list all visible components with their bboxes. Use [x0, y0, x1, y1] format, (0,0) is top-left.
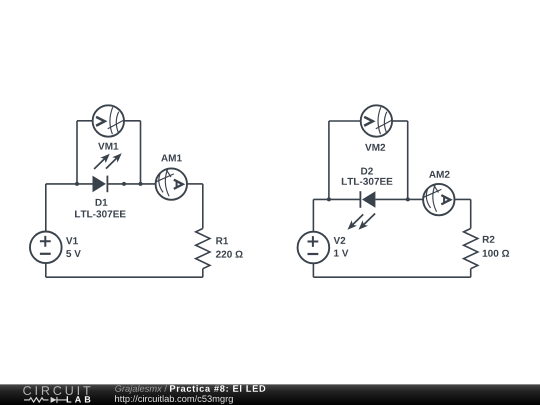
- label VM1: [98, 143, 118, 150]
- voltmeter VM2: [361, 105, 392, 136]
- label R1: [216, 237, 228, 244]
- author credit: Grajalesmx: [115, 385, 162, 394]
- label D2: [361, 168, 373, 175]
- wire: R1 bottom stub: [202, 269, 204, 278]
- wire: VM2 left branch horizontal: [329, 120, 361, 122]
- wire: AM1 right to corner above R1: [187, 183, 203, 185]
- wire: VM1 right branch vertical: [140, 121, 142, 184]
- label AM1: [161, 155, 182, 162]
- wire: bottom return row right circuit: [313, 276, 470, 278]
- wire: V1 plus terminal up to main row: [45, 184, 47, 232]
- wire: VM2 left branch vertical: [328, 121, 330, 199]
- wire: V2 plus terminal up to main row: [312, 199, 314, 231]
- LED D2 light arrow 1: [348, 214, 364, 229]
- label V1: [66, 237, 78, 244]
- voltmeter VM1: [93, 105, 124, 136]
- label R2: [483, 236, 495, 243]
- value label 100 ohm: [483, 250, 510, 257]
- footer bar background: [0, 384, 540, 405]
- resistor R2: [464, 229, 478, 269]
- LED D1 light arrow 1: [94, 154, 110, 169]
- node junction dot (VM1 right branch): [139, 182, 143, 186]
- wire: LED D1 cathode to ammeter AM1: [107, 183, 155, 185]
- node junction dot (VM1 left branch / D1 anode): [75, 182, 79, 186]
- value label 5 V: [66, 250, 81, 257]
- wire: corner down to R1 top: [202, 184, 204, 229]
- resistor R1: [196, 229, 210, 269]
- wire: AM2 right to corner above R2: [455, 198, 471, 200]
- node junction dot (VM2 left branch): [327, 197, 331, 201]
- wire: VM1 left branch horizontal: [77, 120, 93, 122]
- wire: R2 bottom stub: [470, 269, 472, 278]
- label V2: [334, 237, 346, 244]
- voltage source V2: [298, 232, 330, 264]
- wire: bottom return row left circuit: [46, 276, 203, 278]
- node junction dot (VM2 right branch): [406, 197, 410, 201]
- CircuitLab logo word CIRCUIT: [23, 386, 90, 395]
- wire: LED D2 anode to ammeter AM2: [376, 198, 424, 200]
- credit separator slash: [164, 385, 167, 392]
- wire: corner down to R2 top: [470, 199, 472, 228]
- LED D1 (triangle and cathode bar): [93, 176, 108, 193]
- LED D2 (triangle and cathode bar, rotated 180): [360, 191, 375, 208]
- logo word LAB: [67, 396, 91, 402]
- value label LTL-307EE (D1): [75, 210, 126, 217]
- wire: bottom row up to V2 minus terminal: [312, 263, 314, 277]
- voltage source V1: [30, 232, 62, 264]
- label VM2: [365, 144, 385, 151]
- wire: bottom row up to V1 minus terminal: [45, 263, 47, 277]
- LED D1 light arrow 2: [106, 153, 122, 168]
- label AM2: [429, 171, 450, 178]
- value label LTL-307EE (D2): [342, 178, 393, 185]
- wire: VM1 right branch horizontal: [124, 120, 141, 122]
- wire: main row V2 corner to LED D2 cathode: [313, 198, 360, 200]
- value label 1 V: [334, 250, 348, 257]
- url line: [115, 395, 233, 404]
- node dot (wire joint right of D1): [122, 182, 126, 186]
- wire: main row V1 corner to LED D1 anode: [46, 183, 93, 185]
- logo schematic squiggle: diode and wire: [51, 397, 67, 403]
- wire: VM2 right branch horizontal: [392, 120, 408, 122]
- wire: VM2 right branch vertical: [407, 121, 409, 199]
- label D1: [96, 199, 108, 206]
- value label 220 ohm: [216, 251, 243, 258]
- ammeter AM1: [156, 168, 187, 199]
- title: Practica #8: El LED: [170, 385, 265, 392]
- LED D2 light arrow 2: [359, 214, 376, 230]
- wire: VM1 left branch vertical: [76, 121, 78, 184]
- ammeter AM2: [423, 184, 454, 215]
- logo schematic squiggle: wire and resistor: [24, 398, 48, 402]
